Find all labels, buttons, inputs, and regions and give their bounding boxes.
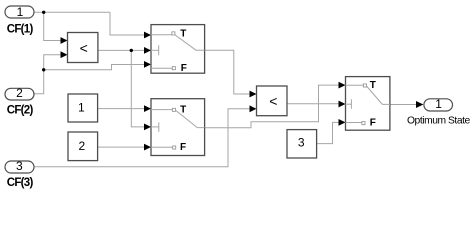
svg-text:CF(1): CF(1) <box>7 24 34 36</box>
wire port1 to corner <box>34 11 110 13</box>
relational operator U2 <box>257 86 288 116</box>
svg-text:1: 1 <box>435 97 442 111</box>
svg-text:CF(3): CF(3) <box>7 177 34 189</box>
svg-text:F: F <box>180 142 186 153</box>
SW3 F port stub <box>346 122 362 124</box>
wire const1 to switch2 in1 <box>98 108 145 110</box>
svg-text:1: 1 <box>17 5 24 19</box>
svg-text:1: 1 <box>78 101 85 115</box>
node B junction dot <box>42 68 45 71</box>
arrowhead switch3 in1 <box>339 82 346 89</box>
SW1 T port stub <box>151 34 172 36</box>
wire port3 to lt2 in2 <box>35 109 251 167</box>
arrowhead switch2 in1 <box>144 105 151 112</box>
inport 1 <box>5 6 34 18</box>
svg-text:2: 2 <box>16 86 23 100</box>
svg-text:Optimum State: Optimum State <box>407 116 471 127</box>
arrowhead lt1 in1 <box>61 37 68 44</box>
svg-text:F: F <box>181 63 187 74</box>
svg-text:T: T <box>180 29 186 40</box>
node A junction dot <box>42 11 45 14</box>
wire const3 to switch3 in3 <box>317 122 340 143</box>
switch SW2 <box>151 99 205 156</box>
wire switch2 out to switch3 in1 <box>205 85 340 128</box>
relational operator U1 <box>68 33 98 63</box>
arrowhead lt2 in1 <box>250 91 257 98</box>
node C junction dot <box>130 49 133 52</box>
constant 3 <box>287 130 317 158</box>
SW1 lever <box>175 35 205 50</box>
arrowhead outport <box>416 101 423 108</box>
arrowhead switch3 in2 <box>339 101 346 108</box>
arrowhead switch2 in2 <box>144 124 151 131</box>
switch SW3 <box>346 77 390 131</box>
wire switch3 out to outport <box>390 104 416 106</box>
svg-text:3: 3 <box>298 136 305 150</box>
svg-text:3: 3 <box>16 159 23 173</box>
wire node C down to switch2 in2 <box>131 50 144 127</box>
SW2 T port stub <box>151 109 172 111</box>
constant 1 <box>68 94 98 122</box>
svg-text:<: < <box>269 93 277 109</box>
wire lt2 out to switch3 in2 <box>287 103 339 105</box>
svg-text:CF(2): CF(2) <box>7 104 34 116</box>
arrowhead lt2 in2 <box>250 105 257 112</box>
wire const2 to switch2 in3 <box>98 146 145 148</box>
SW2 threshold tick <box>151 126 159 128</box>
inport 2 <box>5 88 34 100</box>
wire node A branch down to lt1 in1 <box>44 12 62 40</box>
wire node B to switch1 in3 <box>44 65 145 70</box>
arrowhead lt1 in2 <box>61 51 68 58</box>
SW3 threshold tick <box>346 103 352 105</box>
wire port2 up to lt1 in2 <box>35 55 62 94</box>
constant 2 <box>68 132 98 161</box>
arrowhead switch2 in3 <box>144 144 151 151</box>
wire switch1 out to lt2 in1 <box>205 50 251 94</box>
inport 3 <box>5 161 34 173</box>
SW2 lever <box>176 111 205 128</box>
svg-text:T: T <box>370 80 376 91</box>
svg-text:<: < <box>80 40 88 56</box>
SW3 T port stub <box>346 84 364 86</box>
svg-text:2: 2 <box>79 139 86 153</box>
arrowhead switch1 in2 <box>144 47 151 54</box>
SW1 threshold tick <box>151 49 159 51</box>
outport 1 <box>424 99 453 111</box>
wire lt1 out to switch1 in2 <box>98 49 145 51</box>
arrowhead switch1 in1 <box>144 32 151 39</box>
arrowhead switch1 in3 <box>144 61 151 68</box>
SW3 lever <box>367 86 391 104</box>
svg-text:F: F <box>370 118 376 129</box>
svg-text:T: T <box>180 104 186 115</box>
switch SW1 <box>151 25 205 74</box>
wire port1 corner down into switch1 in1 <box>110 12 145 35</box>
arrowhead switch3 in3 <box>339 119 346 126</box>
SW2 F port stub <box>151 146 172 148</box>
SW1 F port stub <box>151 67 172 69</box>
